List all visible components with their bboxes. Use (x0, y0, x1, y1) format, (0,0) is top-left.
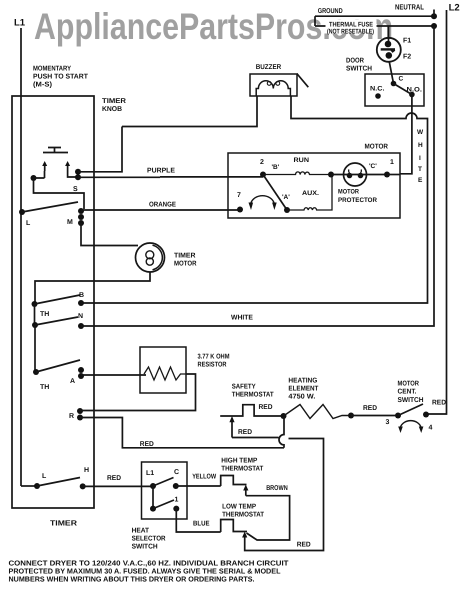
svg-text:S: S (73, 186, 78, 193)
svg-text:RESISTOR: RESISTOR (198, 362, 227, 369)
svg-text:3: 3 (386, 419, 390, 426)
svg-text:SWITCH: SWITCH (398, 397, 424, 404)
node N.O. dot (409, 92, 415, 98)
svg-text:L1: L1 (14, 18, 26, 29)
timer contact S dots (75, 169, 81, 175)
wire M down to timer motor (81, 223, 138, 246)
wire heater junction hop down to red R line (279, 416, 284, 448)
svg-text:'C': 'C' (369, 163, 377, 170)
svg-text:3.77 K OHM: 3.77 K OHM (198, 354, 230, 361)
svg-text:B: B (79, 292, 84, 299)
node motor 7 dot (237, 207, 243, 213)
svg-text:'A': 'A' (282, 194, 290, 201)
svg-text:THERMOSTAT: THERMOSTAT (222, 512, 265, 519)
svg-text:F1: F1 (403, 38, 411, 45)
svg-text:4750 W.: 4750 W. (288, 394, 315, 401)
buzzer striker (297, 74, 309, 88)
brown arrow to high temp (245, 490, 247, 496)
timer box (12, 96, 94, 508)
resistor box (140, 347, 186, 393)
svg-text:A: A (70, 378, 75, 385)
wire L1 vertical (20, 28, 22, 486)
push-to-start arrow left (44, 163, 46, 171)
timer contact TH1 dot and arm to B (32, 301, 38, 307)
svg-text:L2: L2 (449, 3, 460, 14)
wire yellow C to high temp (176, 485, 221, 487)
safety thermostat (220, 405, 283, 416)
red arrow to safety thermostat (231, 422, 233, 438)
cent switch arm (398, 404, 423, 416)
buzzer coil (256, 81, 290, 96)
wire neutral line (315, 15, 434, 17)
svg-text:CENT.: CENT. (398, 389, 417, 396)
node selector L1 dot and arm (150, 483, 156, 489)
svg-text:I: I (419, 155, 421, 162)
wire TH2 down to TH3 (34, 325, 36, 372)
svg-text:N.C.: N.C. (370, 86, 385, 93)
node selector C dot (173, 483, 179, 489)
svg-text:HEATING: HEATING (288, 378, 318, 385)
svg-text:WHITE: WHITE (231, 315, 253, 322)
wire TH1 to TH2 (34, 304, 36, 325)
wire N.O. down to motor C (400, 95, 412, 174)
svg-text:H: H (84, 467, 89, 474)
svg-text:C: C (399, 76, 404, 83)
label THERMAL FUSE (326, 20, 377, 34)
wire L2 vertical (426, 10, 447, 414)
wire brown high temp to low temp (246, 496, 290, 540)
wire timer A to resistor (81, 374, 146, 376)
svg-text:W: W (417, 129, 424, 136)
wire fuse to door switch C (389, 62, 393, 84)
node motor B dot (260, 172, 266, 178)
wire orange M to motor 7 (81, 209, 240, 211)
svg-text:SELECTOR: SELECTOR (132, 536, 166, 543)
svg-text:'B': 'B' (272, 164, 280, 171)
wire red timer H to heat selector L1 (83, 485, 153, 487)
svg-text:L: L (26, 220, 31, 227)
wire buzzer left lead to S branch (122, 96, 257, 127)
svg-text:SWITCH: SWITCH (132, 544, 158, 551)
svg-text:PUSH TO START: PUSH TO START (33, 74, 89, 81)
svg-text:PURPLE: PURPLE (147, 168, 175, 175)
wire purple S to motor B (78, 176, 263, 178)
svg-text:ORANGE: ORANGE (149, 202, 176, 209)
timer contact N dot (78, 323, 84, 329)
svg-text:MOTOR: MOTOR (398, 381, 420, 388)
svg-text:AUX.: AUX. (302, 190, 319, 197)
node N.C. dot (375, 93, 381, 99)
svg-text:THERMOSTAT: THERMOSTAT (232, 392, 275, 399)
wire timer R bottom red (80, 418, 284, 448)
node heating element left dot (281, 413, 287, 419)
timer contact H dot (80, 483, 86, 489)
heating element zigzag (284, 405, 352, 419)
svg-text:RED: RED (140, 441, 154, 448)
thermal fuse F1 F2 (388, 26, 390, 44)
svg-text:TIMER: TIMER (174, 253, 196, 260)
wire push-button right contact to S (68, 171, 78, 177)
svg-text:MOTOR: MOTOR (338, 189, 359, 196)
timer contact TH3 dot and arm to A (33, 369, 39, 375)
svg-text:THERMAL FUSE: THERMAL FUSE (329, 22, 373, 29)
push-to-start button plunger (43, 148, 68, 153)
wire resistor to timer R top (80, 374, 196, 411)
svg-text:TIMER: TIMER (102, 98, 126, 105)
node C dot (391, 81, 397, 87)
watermark AppliancePartsPros.com (34, 6, 393, 48)
timer contact TH2 dot and arm to N (32, 322, 38, 328)
svg-text:KNOB: KNOB (102, 106, 122, 113)
timer contact B dot (78, 300, 84, 306)
svg-text:PROTECTOR: PROTECTOR (338, 197, 377, 204)
wire blue selector 1 to low temp (176, 509, 220, 532)
svg-text:MOTOR: MOTOR (174, 261, 197, 268)
wire heater to cent switch 3 (351, 415, 398, 417)
timer contact R dots (77, 408, 83, 414)
svg-text:R: R (69, 413, 74, 420)
svg-text:E: E (418, 177, 423, 184)
svg-text:THERMOSTAT: THERMOSTAT (221, 466, 264, 473)
svg-text:ELEMENT: ELEMENT (288, 386, 319, 393)
node selector 1 dot (173, 506, 179, 512)
wire protector to C (331, 174, 387, 176)
wire push-button left contact to M (31, 175, 37, 181)
svg-text:RED: RED (297, 542, 311, 549)
timer contact M dots (78, 208, 84, 214)
motor protector (344, 163, 367, 186)
svg-text:1: 1 (390, 159, 394, 166)
heat selector box (142, 462, 188, 519)
aux winding coil (287, 175, 332, 211)
svg-text:RED: RED (259, 404, 273, 411)
node motor A dot (284, 207, 290, 213)
node cent switch 3 dot (395, 413, 401, 419)
svg-text:RED: RED (238, 429, 252, 436)
timer contact L bottom dot and arm to H (34, 483, 40, 489)
resistor zigzag (144, 367, 187, 380)
svg-text:NUMBERS WHEN WRITING ABOUT THI: NUMBERS WHEN WRITING ABOUT THIS DRYER OR… (9, 575, 255, 584)
svg-text:BLUE: BLUE (193, 521, 210, 528)
svg-text:GROUND: GROUND (318, 8, 343, 15)
svg-text:7: 7 (237, 192, 241, 199)
low temp thermostat (221, 520, 247, 533)
svg-text:NEUTRAL: NEUTRAL (395, 3, 424, 12)
timer motor (136, 243, 165, 272)
svg-text:MOMENTARY: MOMENTARY (33, 66, 71, 73)
wire buzzer right lead with hop to timer B (81, 96, 428, 303)
svg-text:4: 4 (429, 425, 433, 432)
wire red safety to low temp (232, 438, 324, 551)
svg-text:M: M (67, 219, 73, 226)
node cent switch 4 dot (423, 412, 429, 418)
svg-text:C: C (174, 469, 179, 476)
svg-text:T: T (418, 166, 422, 173)
timer contact A dots (78, 367, 84, 373)
node heating element right dot (348, 413, 354, 419)
node neutral dot lower (431, 23, 437, 29)
door switch box (365, 74, 424, 106)
wire ground jog (314, 16, 316, 26)
svg-text:(M-S): (M-S) (33, 81, 52, 89)
svg-text:BROWN: BROWN (266, 485, 288, 492)
svg-text:RED: RED (107, 475, 121, 482)
motor switch arm B to A (263, 175, 287, 211)
wire thermal fuse line (315, 25, 434, 27)
svg-text:HEAT: HEAT (132, 528, 150, 535)
push-to-start arrow right (67, 163, 69, 171)
svg-text:RED: RED (363, 405, 377, 412)
buzzer box (250, 74, 297, 96)
wire L1 to timer L bottom (21, 485, 37, 487)
svg-text:N: N (78, 313, 83, 320)
svg-text:BUZZER: BUZZER (256, 64, 282, 71)
svg-text:2: 2 (260, 159, 264, 166)
node motor C dot (384, 172, 390, 178)
svg-text:DOOR: DOOR (346, 58, 364, 65)
node neutral dot upper (431, 13, 437, 19)
svg-text:(NOT RESETABLE): (NOT RESETABLE) (327, 29, 374, 36)
svg-text:TH: TH (40, 311, 49, 318)
svg-text:H: H (418, 142, 423, 149)
wire S to buzzer branch (78, 127, 122, 172)
svg-text:SAFETY: SAFETY (232, 384, 256, 391)
svg-text:SWITCH: SWITCH (346, 66, 372, 73)
svg-text:RED: RED (432, 400, 446, 407)
svg-text:LOW TEMP: LOW TEMP (222, 504, 256, 511)
wire timer motor to TH (35, 272, 150, 304)
node run/aux junction dot (328, 172, 334, 178)
wire white neutral to timer N (81, 26, 434, 326)
svg-text:1: 1 (175, 497, 179, 504)
svg-text:F2: F2 (403, 54, 411, 61)
door switch arm C to N.O. (394, 84, 412, 95)
high temp thermostat (221, 476, 247, 487)
svg-text:YELLOW: YELLOW (192, 474, 216, 481)
timer contact L dot and arm (19, 209, 25, 215)
svg-text:TIMER: TIMER (50, 519, 78, 528)
svg-text:L1: L1 (146, 470, 154, 477)
wire selector L1 down (152, 486, 154, 509)
run winding coil (263, 172, 331, 175)
motor box (228, 153, 400, 218)
svg-text:L: L (42, 473, 47, 480)
motor switch arc with arrows (251, 196, 275, 204)
svg-text:TH: TH (40, 384, 49, 391)
cent switch arc with arrows (400, 421, 421, 428)
node selector L1 lower dot and arm (150, 506, 156, 512)
wire C to box edge (387, 174, 400, 176)
svg-text:MOTOR: MOTOR (365, 144, 389, 151)
svg-text:RUN: RUN (294, 157, 310, 164)
svg-text:HIGH TEMP: HIGH TEMP (221, 458, 257, 465)
